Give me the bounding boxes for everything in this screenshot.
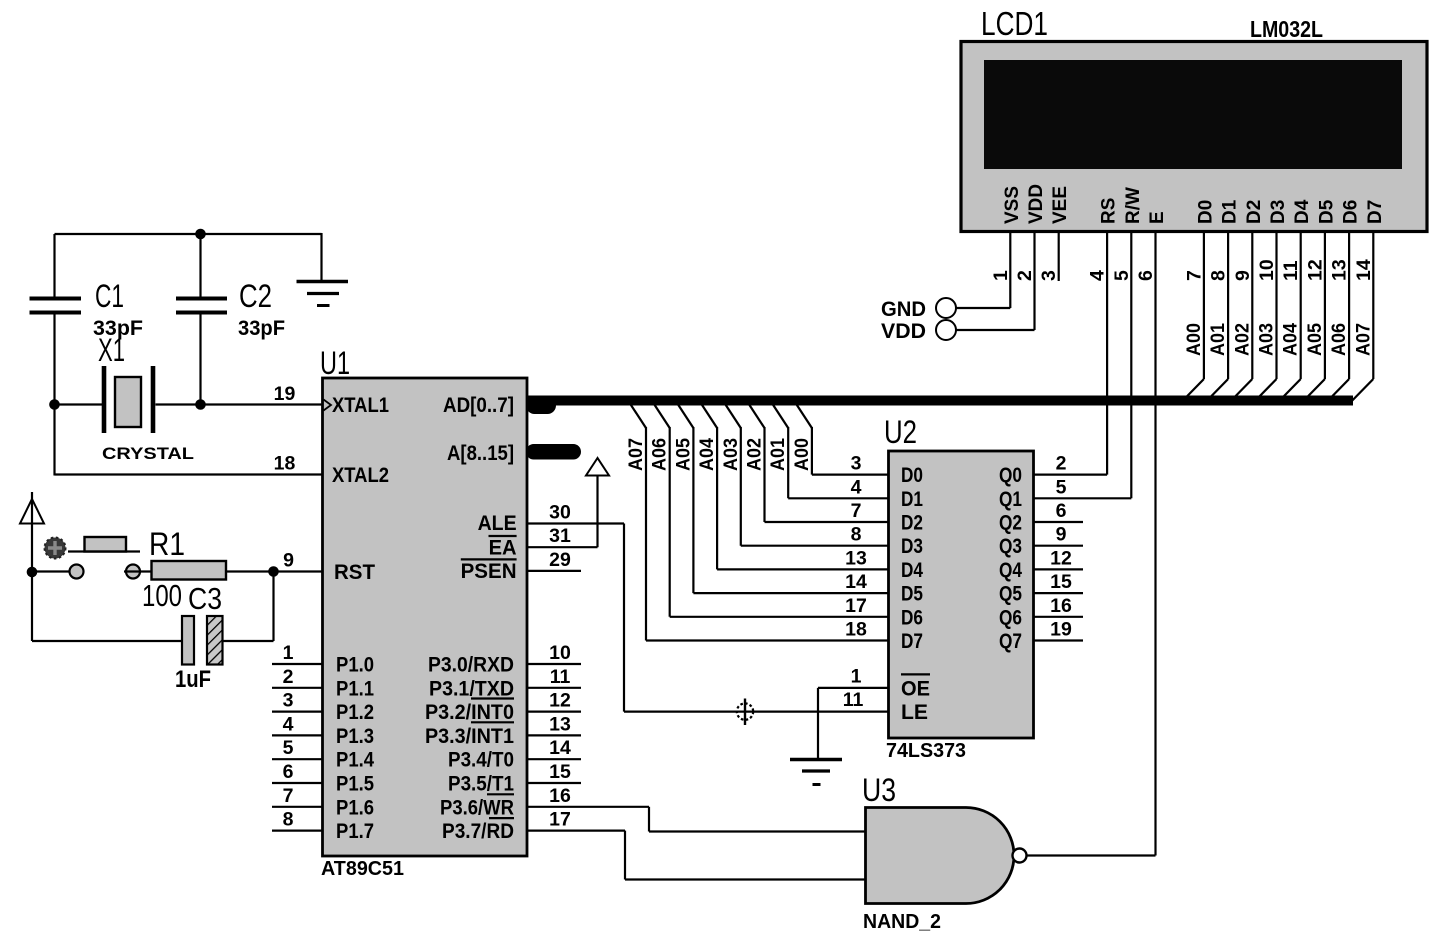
- svg-text:D7: D7: [1365, 200, 1386, 224]
- svg-text:4: 4: [1087, 270, 1109, 281]
- svg-text:C1: C1: [95, 278, 124, 314]
- svg-text:A01: A01: [767, 438, 789, 471]
- svg-text:10: 10: [549, 642, 571, 664]
- svg-text:12: 12: [549, 690, 571, 712]
- svg-text:A06: A06: [649, 438, 671, 471]
- svg-text:11: 11: [843, 689, 864, 711]
- svg-text:P1.7: P1.7: [336, 820, 374, 843]
- svg-text:A[8..15]: A[8..15]: [447, 442, 514, 465]
- svg-text:A03: A03: [720, 438, 742, 471]
- svg-text:12: 12: [1050, 547, 1072, 569]
- svg-text:P3.6/WR: P3.6/WR: [440, 796, 514, 819]
- svg-text:13: 13: [1329, 259, 1351, 281]
- svg-text:D5: D5: [901, 583, 923, 606]
- svg-text:D1: D1: [1220, 199, 1241, 224]
- svg-text:18: 18: [274, 453, 296, 475]
- svg-text:D6: D6: [901, 606, 923, 629]
- svg-text:13: 13: [549, 713, 571, 735]
- svg-text:29: 29: [549, 549, 571, 571]
- svg-text:A02: A02: [1231, 323, 1253, 356]
- svg-text:6: 6: [283, 761, 294, 783]
- svg-text:P3.1/TXD: P3.1/TXD: [429, 677, 514, 700]
- svg-text:U1: U1: [320, 345, 350, 381]
- svg-text:C3: C3: [188, 581, 222, 616]
- svg-text:8: 8: [1208, 270, 1230, 281]
- svg-text:D6: D6: [1341, 200, 1362, 224]
- svg-text:14: 14: [1353, 259, 1375, 281]
- svg-text:D3: D3: [901, 535, 923, 558]
- svg-text:16: 16: [549, 785, 571, 807]
- svg-text:14: 14: [549, 737, 571, 759]
- svg-text:D0: D0: [1195, 200, 1216, 224]
- svg-text:A00: A00: [791, 438, 813, 471]
- svg-text:A00: A00: [1183, 323, 1205, 356]
- svg-text:OE: OE: [901, 677, 930, 700]
- svg-text:19: 19: [1050, 619, 1072, 641]
- svg-text:U3: U3: [862, 772, 896, 808]
- svg-text:GND: GND: [881, 298, 926, 321]
- svg-text:XTAL1: XTAL1: [332, 394, 389, 417]
- svg-text:1uF: 1uF: [175, 666, 211, 693]
- svg-text:3: 3: [283, 690, 294, 712]
- svg-text:8: 8: [283, 809, 294, 831]
- svg-text:Q5: Q5: [999, 583, 1022, 606]
- svg-text:5: 5: [1056, 476, 1067, 498]
- svg-text:AD[0..7]: AD[0..7]: [443, 394, 514, 417]
- svg-text:EA: EA: [489, 537, 517, 560]
- svg-text:11: 11: [1280, 260, 1302, 281]
- svg-text:AT89C51: AT89C51: [321, 858, 404, 880]
- svg-text:A04: A04: [696, 438, 718, 471]
- svg-text:P3.3/INT1: P3.3/INT1: [425, 725, 514, 748]
- svg-text:2: 2: [283, 666, 294, 688]
- svg-text:10: 10: [1256, 259, 1278, 281]
- svg-text:6: 6: [1135, 270, 1157, 281]
- svg-text:C2: C2: [239, 278, 272, 314]
- svg-text:1: 1: [283, 642, 294, 664]
- svg-text:U2: U2: [884, 414, 917, 450]
- svg-text:X1: X1: [98, 332, 125, 368]
- svg-text:VDD: VDD: [881, 320, 926, 343]
- svg-text:PSEN: PSEN: [461, 560, 517, 583]
- svg-text:P3.5/T1: P3.5/T1: [448, 773, 514, 796]
- svg-text:9: 9: [283, 550, 294, 572]
- svg-text:A07: A07: [1352, 323, 1374, 356]
- svg-text:P3.7/RD: P3.7/RD: [442, 820, 514, 843]
- svg-text:31: 31: [549, 525, 571, 547]
- svg-text:2: 2: [1056, 453, 1067, 475]
- svg-text:1: 1: [990, 270, 1012, 281]
- svg-text:14: 14: [845, 571, 867, 593]
- svg-text:3: 3: [1038, 270, 1060, 281]
- svg-text:A06: A06: [1328, 323, 1350, 356]
- svg-text:CRYSTAL: CRYSTAL: [102, 444, 194, 463]
- svg-text:9: 9: [1056, 524, 1067, 546]
- svg-text:5: 5: [283, 737, 294, 759]
- svg-text:Q0: Q0: [999, 464, 1022, 487]
- svg-text:P1.6: P1.6: [336, 796, 374, 819]
- svg-text:LM032L: LM032L: [1250, 16, 1323, 42]
- svg-text:LCD1: LCD1: [981, 5, 1048, 42]
- svg-text:D1: D1: [901, 488, 923, 511]
- svg-text:1: 1: [851, 666, 862, 688]
- svg-text:12: 12: [1304, 259, 1326, 281]
- svg-text:16: 16: [1050, 595, 1072, 617]
- svg-text:D7: D7: [901, 630, 923, 653]
- svg-text:VDD: VDD: [1026, 184, 1047, 224]
- svg-text:100: 100: [142, 578, 182, 613]
- svg-text:Q2: Q2: [999, 512, 1022, 535]
- svg-text:11: 11: [550, 666, 571, 688]
- svg-text:17: 17: [549, 809, 571, 831]
- svg-text:7: 7: [851, 500, 862, 522]
- svg-text:VSS: VSS: [1002, 186, 1023, 224]
- svg-text:RST: RST: [334, 561, 375, 584]
- svg-text:5: 5: [1111, 270, 1133, 281]
- svg-text:VEE: VEE: [1050, 186, 1071, 224]
- svg-text:A07: A07: [625, 438, 647, 471]
- svg-text:7: 7: [283, 785, 294, 807]
- svg-text:P3.0/RXD: P3.0/RXD: [428, 654, 514, 677]
- svg-text:D2: D2: [1244, 200, 1265, 224]
- svg-text:P1.2: P1.2: [336, 701, 374, 724]
- svg-text:A05: A05: [672, 438, 694, 471]
- svg-text:D3: D3: [1268, 200, 1289, 224]
- svg-text:18: 18: [845, 619, 867, 641]
- svg-text:P3.2/INT0: P3.2/INT0: [425, 701, 514, 724]
- svg-text:8: 8: [851, 524, 862, 546]
- svg-text:30: 30: [549, 502, 571, 524]
- svg-text:15: 15: [549, 761, 571, 783]
- svg-text:17: 17: [845, 595, 867, 617]
- svg-text:A02: A02: [744, 438, 766, 471]
- svg-text:E: E: [1147, 211, 1168, 224]
- svg-text:33pF: 33pF: [238, 317, 285, 340]
- svg-text:RS: RS: [1099, 198, 1120, 224]
- svg-text:2: 2: [1014, 270, 1036, 281]
- svg-text:R1: R1: [149, 526, 185, 562]
- svg-text:4: 4: [851, 476, 862, 498]
- svg-text:7: 7: [1183, 270, 1205, 281]
- svg-text:A01: A01: [1207, 323, 1229, 356]
- svg-text:4: 4: [283, 713, 294, 735]
- svg-text:P1.5: P1.5: [336, 773, 374, 796]
- svg-text:D4: D4: [901, 559, 923, 582]
- svg-text:R/W: R/W: [1123, 187, 1144, 224]
- svg-text:D2: D2: [901, 512, 923, 535]
- svg-text:19: 19: [274, 383, 296, 405]
- svg-text:Q1: Q1: [999, 488, 1022, 511]
- svg-text:LE: LE: [901, 701, 928, 724]
- svg-text:P1.1: P1.1: [336, 677, 374, 700]
- svg-text:ALE: ALE: [478, 512, 517, 535]
- svg-text:3: 3: [851, 453, 862, 475]
- svg-text:D4: D4: [1292, 199, 1313, 224]
- svg-text:A04: A04: [1280, 323, 1302, 356]
- svg-text:XTAL2: XTAL2: [332, 464, 389, 487]
- svg-text:15: 15: [1050, 571, 1072, 593]
- svg-text:P1.0: P1.0: [336, 654, 374, 677]
- svg-text:Q7: Q7: [999, 630, 1022, 653]
- svg-text:NAND_2: NAND_2: [863, 911, 941, 933]
- svg-text:74LS373: 74LS373: [886, 740, 966, 762]
- svg-text:9: 9: [1232, 270, 1254, 281]
- svg-text:D0: D0: [901, 464, 923, 487]
- svg-text:13: 13: [845, 547, 867, 569]
- svg-text:Q3: Q3: [999, 535, 1022, 558]
- svg-text:D5: D5: [1316, 199, 1337, 224]
- svg-text:Q4: Q4: [999, 559, 1022, 582]
- svg-text:6: 6: [1056, 500, 1067, 522]
- svg-text:P1.3: P1.3: [336, 725, 374, 748]
- svg-text:A03: A03: [1256, 323, 1278, 356]
- svg-text:P1.4: P1.4: [336, 749, 374, 772]
- svg-text:A05: A05: [1304, 323, 1326, 356]
- svg-text:Q6: Q6: [999, 606, 1022, 629]
- svg-text:P3.4/T0: P3.4/T0: [448, 749, 514, 772]
